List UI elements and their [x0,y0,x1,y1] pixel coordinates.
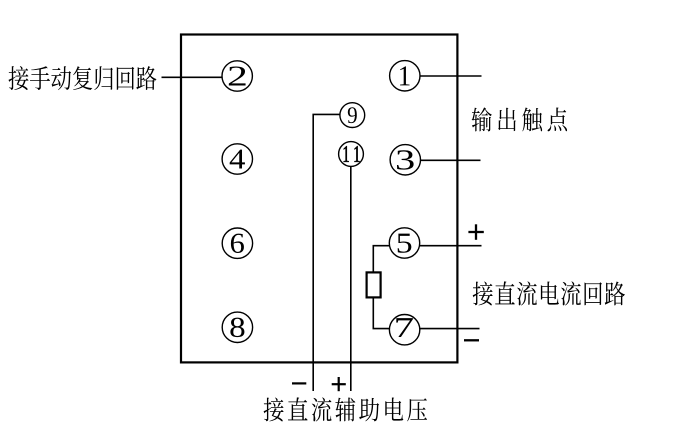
label 输出触点 [472,107,567,131]
terminal 8 [222,312,252,342]
relay case outline [181,35,457,363]
wire: terminal 5 to resistor [373,246,389,273]
wire: terminal 5 output plus [420,245,482,247]
wire: manual reset label to terminal 2 [162,76,223,78]
label 接手动复归回路 [9,66,157,90]
wire: terminal 3 output contact [421,159,481,161]
wire: terminal 7 output minus [420,328,480,330]
wire: terminal 11 to DC auxiliary plus [350,166,352,391]
wire: resistor to terminal 7 [373,297,389,328]
terminal 3 [390,145,420,175]
terminal 7 [389,315,419,345]
polarity minus at terminal 7 [464,339,479,341]
label 接直流电流回路 [473,281,625,305]
terminal 5 [389,228,419,258]
terminal 2 [222,61,252,91]
terminal 4 [222,144,252,174]
terminal 6 [222,228,252,258]
label 接直流辅助电压 [264,397,427,421]
polarity plus at terminal 5 [468,224,483,240]
terminal 11 [339,142,364,167]
polarity minus at DC auxiliary [292,382,306,384]
resistor [367,272,381,297]
wire: terminal 1 output contact [420,75,482,77]
wire: terminal 9 to DC auxiliary minus [313,114,340,391]
terminal 1 [390,61,420,91]
polarity plus at DC auxiliary [332,377,346,391]
terminal 9 [340,103,365,128]
